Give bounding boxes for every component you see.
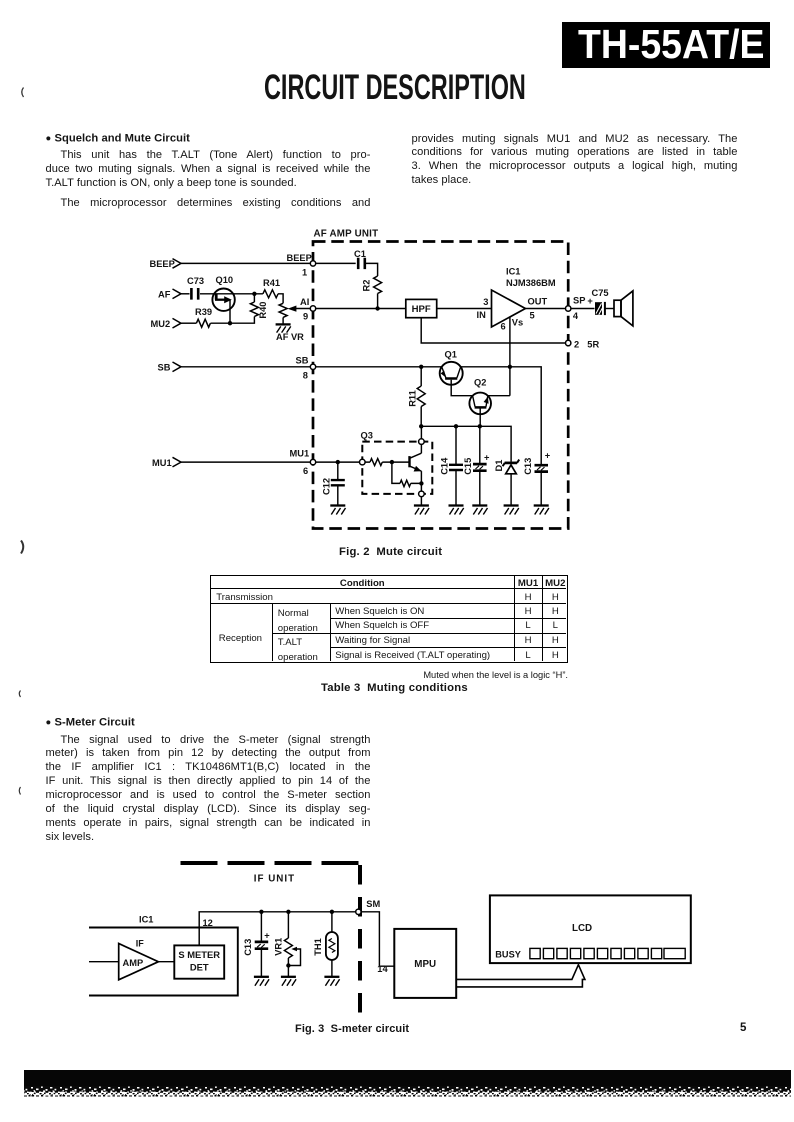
transistor Q1	[440, 362, 463, 385]
ground C13	[534, 504, 549, 506]
svg-text:Q2: Q2	[474, 378, 486, 388]
svg-text:6: 6	[501, 322, 506, 332]
wire bus line	[421, 426, 511, 461]
S-Meter section	[46, 716, 371, 845]
svg-text:AF: AF	[158, 290, 171, 300]
svg-text:HPF: HPF	[412, 304, 431, 315]
block HPF	[406, 299, 437, 317]
wiper VR1	[288, 949, 300, 966]
wire R11 to bus	[420, 407, 422, 427]
block IC1 outline	[89, 928, 238, 996]
pin circle SM	[356, 909, 361, 914]
svg-text:TH1: TH1	[313, 938, 323, 956]
wire Q3 emitter to ground	[420, 471, 422, 505]
svg-text:S METER: S METER	[178, 949, 220, 960]
wire AI rail pin9 to HPF	[313, 308, 406, 310]
svg-text:DET: DET	[190, 962, 209, 973]
transistor Q3	[408, 456, 410, 467]
svg-text:NJM386BM: NJM386BM	[506, 278, 556, 288]
svg-text:AI: AI	[300, 297, 309, 307]
block LCD	[490, 895, 691, 963]
svg-text:MU2: MU2	[151, 319, 171, 329]
wire Q3 collector	[420, 444, 422, 453]
table grid lines	[211, 588, 566, 589]
svg-text:C13: C13	[523, 458, 533, 475]
wire pin 12	[199, 912, 358, 946]
connector chevron BEEP	[173, 259, 182, 269]
node AF input wire	[181, 293, 190, 295]
potentiometer VR1	[287, 912, 289, 938]
svg-text:LCD: LCD	[572, 923, 592, 934]
ground C15	[472, 504, 487, 506]
ground C12	[330, 504, 345, 506]
capacitor C12	[337, 462, 339, 479]
svg-text:+: +	[545, 451, 551, 461]
table notes	[406, 670, 568, 680]
node SB input wire	[181, 366, 313, 368]
wire Q1 base to Q2	[451, 380, 472, 396]
wire Q1 collector to C13 corner	[461, 367, 542, 465]
svg-text:MPU: MPU	[414, 959, 436, 970]
thermistor TH1	[331, 912, 333, 932]
AF AMP UNIT dashed box	[313, 242, 568, 529]
svg-text:MU1: MU1	[152, 458, 172, 468]
capacitor C13	[260, 912, 262, 941]
block S METER DET	[174, 945, 224, 978]
svg-text:IC1: IC1	[506, 267, 520, 277]
connector chevron MU1	[173, 457, 182, 467]
wire Q2 base to bus	[479, 408, 481, 426]
ground VR1	[281, 976, 296, 978]
wire input to IF AMP	[89, 961, 119, 963]
amplifier IF AMP triangle	[119, 944, 159, 980]
margin scan marks	[19, 88, 23, 795]
junction dots	[228, 292, 512, 486]
svg-text:R39: R39	[195, 307, 212, 317]
ground Q3	[414, 504, 429, 506]
svg-text:14: 14	[377, 964, 388, 974]
ground C13	[254, 976, 269, 978]
svg-text:R40: R40	[258, 302, 268, 319]
fig 3 caption	[295, 1023, 409, 1035]
svg-text:C12: C12	[322, 478, 332, 495]
svg-text:BUSY: BUSY	[495, 950, 521, 960]
svg-text:C75: C75	[592, 288, 609, 298]
svg-text:2: 2	[574, 339, 579, 349]
svg-text:IC1: IC1	[139, 915, 153, 925]
svg-text:C14: C14	[439, 457, 449, 475]
svg-text:3: 3	[483, 297, 488, 307]
pin circles	[310, 261, 571, 497]
capacitor C73	[191, 288, 198, 300]
fig 2 caption	[339, 546, 442, 558]
potentiometer AF VR	[279, 303, 287, 317]
resistor R2	[374, 276, 382, 294]
svg-text:C13: C13	[243, 939, 253, 956]
svg-text:C15: C15	[463, 458, 473, 475]
left column text	[46, 132, 371, 191]
svg-text:6: 6	[303, 466, 308, 476]
svg-text:5: 5	[530, 310, 535, 320]
capacitor C15	[479, 426, 481, 463]
ground AF VR	[276, 323, 291, 325]
svg-text:AF VR: AF VR	[276, 332, 304, 342]
block MPU	[394, 929, 456, 998]
svg-text:Vs: Vs	[512, 317, 523, 327]
wire R40 top	[253, 294, 255, 302]
svg-text:9: 9	[303, 311, 308, 321]
svg-text:R11: R11	[407, 390, 417, 407]
right column text	[412, 133, 738, 189]
svg-text:AF AMP UNIT: AF AMP UNIT	[314, 229, 379, 240]
fig3 text labels	[123, 874, 593, 975]
dashed box Q3	[362, 442, 432, 494]
wire pin1 to C1	[313, 262, 356, 264]
LCD segment squares	[530, 948, 685, 958]
wire OUT to pin4	[525, 308, 568, 310]
node MU2 input wire	[181, 322, 196, 324]
svg-text:C1: C1	[354, 249, 366, 259]
junction dots fig3	[259, 910, 334, 968]
node MU1 input wire	[181, 461, 313, 463]
capacitor C14	[455, 426, 457, 464]
wire Q10 emitter to MU2 rail	[229, 300, 231, 324]
diode D1 zener	[505, 462, 517, 465]
wire R41 to AF VR	[278, 294, 283, 304]
resistor R41	[254, 290, 278, 298]
connector chevron AF	[173, 289, 182, 299]
ground D1	[504, 504, 519, 506]
svg-text:D1: D1	[494, 460, 504, 472]
svg-text:Q3: Q3	[361, 431, 373, 441]
resistor Q3 base input	[365, 459, 383, 466]
svg-text:IN: IN	[477, 310, 487, 320]
transistor Q10	[212, 289, 234, 311]
svg-text:Q1: Q1	[445, 349, 457, 359]
resistor Q3 feedback	[392, 462, 422, 486]
svg-text:SP: SP	[573, 296, 585, 306]
svg-text:5R: 5R	[587, 339, 599, 349]
svg-text:BEEP: BEEP	[150, 259, 175, 269]
wire pin6 to Q3 box	[313, 461, 360, 463]
page title	[264, 70, 655, 105]
wire HPF bottom to pin2	[421, 318, 568, 343]
resistor R40	[250, 302, 258, 317]
svg-text:OUT: OUT	[528, 297, 548, 307]
svg-text:Q10: Q10	[216, 275, 234, 285]
wire R2 to AI rail	[377, 294, 379, 309]
op-amp IC1 triangle	[492, 290, 526, 327]
svg-text:AMP: AMP	[123, 958, 144, 968]
svg-text:1: 1	[302, 268, 307, 278]
svg-text:VR1: VR1	[273, 938, 283, 956]
resistor R11	[417, 367, 425, 407]
wire C1 to R2	[366, 263, 378, 276]
table 3	[210, 575, 569, 663]
dashed IF UNIT boundary horizontal	[181, 861, 362, 865]
svg-text:SB: SB	[158, 362, 171, 372]
capacitor C1	[358, 258, 365, 269]
svg-text:SM: SM	[366, 899, 380, 909]
wire AMP to S METER DET	[158, 961, 174, 963]
svg-text:BEEP: BEEP	[287, 253, 312, 263]
resistor R39	[196, 319, 210, 327]
svg-text:IF: IF	[136, 939, 145, 949]
table texts	[211, 578, 514, 589]
wire R39 to R40	[211, 317, 255, 324]
fig2 text labels	[150, 229, 609, 496]
connector chevron MU2	[173, 318, 182, 328]
node BEEP input wire	[181, 262, 313, 264]
svg-text:+: +	[484, 453, 490, 463]
svg-text:SB: SB	[296, 355, 309, 365]
svg-text:4: 4	[573, 311, 579, 321]
svg-text:+: +	[264, 931, 270, 941]
wire to Q3 base	[382, 461, 409, 463]
svg-text:C73: C73	[187, 276, 204, 286]
ground C14	[449, 504, 464, 506]
svg-text:IF UNIT: IF UNIT	[254, 874, 295, 885]
bottom black bar	[24, 1070, 791, 1097]
header block TH-55AT/E	[562, 22, 770, 68]
svg-text:R41: R41	[263, 278, 280, 288]
wire C73 through Q10 to R40 junction	[200, 293, 254, 295]
svg-text:12: 12	[203, 918, 213, 928]
page number	[740, 1022, 746, 1034]
svg-text:8: 8	[303, 371, 308, 381]
wiper arrow AF VR	[294, 308, 313, 310]
wire HPF to op-amp IN	[437, 308, 492, 310]
ground TH1	[324, 976, 339, 978]
svg-text:R2: R2	[361, 280, 371, 292]
hollow arrow MPU to LCD	[456, 965, 585, 987]
capacitor C13	[535, 465, 549, 471]
svg-text:MU1: MU1	[290, 449, 310, 459]
capacitor C75	[568, 308, 594, 310]
wire bus to Q3 box	[420, 426, 422, 439]
dashed IF UNIT boundary vertical	[358, 865, 362, 1016]
connector chevron SB	[173, 362, 182, 372]
wire Vs pin6	[509, 317, 511, 396]
wire Q2 emitter to Vs	[488, 395, 510, 397]
transistor Q2	[469, 393, 491, 415]
wire SB rail to Q1 emitter	[313, 366, 442, 368]
speaker SP	[614, 300, 621, 316]
wire SM to MPU pin 14	[361, 912, 394, 966]
